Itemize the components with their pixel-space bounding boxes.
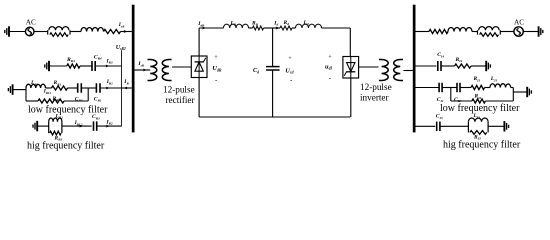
wire [471, 65, 486, 67]
wire [292, 27, 296, 29]
wire [523, 31, 539, 33]
wire [88, 87, 96, 89]
arrow IdR [203, 27, 206, 30]
wire [500, 31, 514, 33]
svg-text:inverter: inverter [360, 93, 389, 103]
wire [80, 65, 92, 67]
ground (RI4 branch) [486, 61, 490, 71]
wire [264, 27, 273, 29]
arrow Id [276, 27, 279, 30]
wire [416, 125, 436, 127]
wire [416, 87, 439, 89]
wire [37, 125, 49, 127]
ground (low freq filter left) [8, 84, 12, 94]
wire (top DC rail left) [199, 27, 223, 29]
wire [511, 87, 514, 89]
resistor RI2 [472, 99, 486, 103]
parallel LI2 RI3 block [468, 118, 488, 134]
resistor RI4 [455, 64, 472, 68]
wire [13, 89, 26, 91]
svg-text:12-pulse: 12-pulse [360, 82, 392, 92]
bus bar (right converter bus) [413, 5, 416, 133]
wire [121, 31, 132, 33]
wire [70, 31, 81, 33]
resistor RR2 [38, 99, 64, 103]
capacitor CI4 [438, 61, 441, 71]
AC source (left system) [25, 27, 34, 36]
wire [442, 87, 457, 89]
wire [488, 125, 504, 127]
wire [485, 100, 513, 102]
arrow IsR [124, 30, 127, 33]
capacitor CR3 [94, 121, 97, 131]
wire [460, 87, 471, 89]
source impedance parallel RL (left) [48, 27, 70, 37]
arrow IsR (transformer) [143, 69, 146, 72]
transformer winding (rect., grid side) [148, 60, 157, 81]
inductor LR1 [26, 84, 46, 88]
AC source (right system) [514, 27, 523, 36]
wire (cap branch lower) [272, 71, 274, 117]
ground (left AC system) [5, 26, 9, 36]
source impedance parallel RL (right) [478, 27, 501, 37]
wire [64, 100, 88, 102]
transformer winding (inv., grid side) [394, 60, 403, 81]
wire [416, 31, 430, 33]
arrow IR2 [106, 125, 109, 128]
wire [122, 87, 132, 89]
ground (RR4 branch) [45, 61, 49, 71]
svg-text:low frequency filter: low frequency filter [440, 103, 520, 114]
capacitor CI2 [457, 83, 460, 93]
svg-text:rectifier: rectifier [166, 95, 195, 105]
wire (cap branch upper) [272, 28, 274, 66]
wire [81, 87, 88, 89]
resistor RI1 [471, 85, 485, 89]
wire (inverter to bottom DC) [350, 78, 352, 117]
resistor Rs (right) [429, 29, 448, 33]
inductor LI1 [490, 84, 511, 88]
wire (top DC rail right) [322, 27, 351, 29]
node line UsR2 (filter collector) [121, 50, 123, 126]
resistor Rd [280, 26, 292, 30]
wire (down to inverter) [349, 28, 351, 57]
svg-text:12-pulse: 12-pulse [163, 85, 195, 95]
wire [62, 125, 92, 127]
capacitor CI1 [439, 83, 442, 93]
arrow IR (into filters) [124, 87, 127, 90]
svg-text:hig frequency filter: hig frequency filter [27, 140, 105, 151]
wire (inverter to transformer) [359, 66, 379, 68]
junction [450, 88, 452, 102]
resistor RR4 [67, 64, 80, 68]
wire [416, 65, 437, 67]
wire (bottom DC rail) [199, 116, 350, 118]
wire [26, 100, 38, 102]
junction [87, 88, 89, 101]
svg-text:+: + [288, 55, 292, 62]
wire (rectifier to top DC) [198, 28, 200, 56]
svg-text:hig frequency filter: hig frequency filter [443, 140, 521, 151]
wire [9, 31, 26, 33]
capacitor CI3 [437, 122, 440, 132]
wire [249, 27, 253, 29]
wire [100, 87, 122, 89]
12-pulse rectifier valve U1 [191, 56, 207, 78]
wire [472, 31, 478, 33]
wire [96, 65, 122, 67]
inductor Ld [296, 24, 322, 28]
ground (low freq filter right) [527, 87, 531, 97]
wire [68, 87, 78, 89]
node (dc mid) [273, 27, 280, 29]
wire [451, 100, 472, 102]
capacitor Cd [266, 67, 280, 70]
wire (transformer to right bus) [403, 70, 412, 72]
transformer winding (inv., valve side) [379, 60, 388, 81]
smoothing reactor LR [224, 24, 249, 28]
capacitor CR2 [78, 83, 82, 93]
wire [97, 125, 122, 127]
arrow IRL2 [80, 125, 83, 128]
svg-text:AC: AC [26, 17, 36, 26]
transformer winding (rect., valve side) [162, 60, 171, 81]
wire (rectifier to bottom DC) [198, 78, 200, 118]
capacitor CR1 [96, 83, 100, 93]
arrow IR1 [106, 87, 109, 90]
wire [46, 87, 52, 89]
svg-text:+: + [214, 54, 218, 61]
12-pulse inverter valve U2 [343, 57, 359, 79]
inductor Ls (left) [81, 27, 104, 31]
ground (high freq filter right) [504, 121, 508, 131]
ground (high freq filter left) [33, 121, 37, 131]
wire [34, 31, 48, 33]
capacitor CR4 [92, 61, 95, 71]
bus bar (left converter bus) [132, 5, 135, 133]
inductor Ls (right) [448, 28, 472, 32]
resistor RR (dc) [253, 26, 264, 30]
arrow IR3 [106, 65, 109, 68]
wire [49, 65, 67, 67]
svg-text:AC: AC [514, 17, 524, 26]
junction [25, 88, 27, 101]
junction [512, 88, 514, 102]
wire [441, 125, 469, 127]
resistor RR1 [52, 86, 68, 90]
svg-text:+: + [328, 54, 332, 61]
parallel LR2 RR3 block [49, 118, 62, 135]
wire [485, 87, 490, 89]
svg-text:low frequency filter: low frequency filter [28, 104, 108, 115]
wire (to ground, right lff) [513, 91, 527, 93]
resistor Rs (left) [104, 29, 121, 33]
wire (transformer to rectifier) [172, 66, 191, 68]
wire [442, 65, 455, 67]
wire (bus to rectifier transformer) [135, 69, 151, 71]
ground (right AC system) [539, 26, 543, 36]
